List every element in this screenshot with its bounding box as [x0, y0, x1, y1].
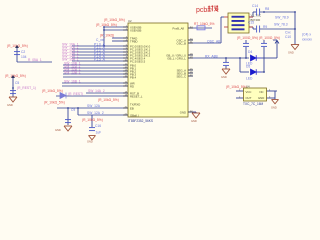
svg-text:RD: RD: [130, 84, 134, 88]
svg-text:P1.5_A: P1.5_A: [94, 57, 106, 61]
svg-text:SW_13B_1: SW_13B_1: [64, 70, 81, 74]
svg-text:(R_10kΩ_5%): (R_10kΩ_5%): [44, 101, 65, 105]
svg-text:GND: GND: [7, 103, 13, 107]
svg-text:104: 104: [21, 55, 27, 59]
svg-text:C16: C16: [95, 124, 101, 128]
svg-text:(R_10kΩ_5%): (R_10kΩ_5%): [82, 118, 103, 122]
svg-text:RX_A8B: RX_A8B: [205, 55, 218, 59]
svg-text:(R_10kΩ_5%): (R_10kΩ_5%): [98, 98, 119, 102]
svg-text:xxxxxx: xxxxxx: [302, 38, 312, 42]
svg-text:pcb: pcb: [196, 7, 207, 14]
svg-text:D5: D5: [246, 65, 250, 69]
svg-text:GB_L / GRU_L: GB_L / GRU_L: [167, 56, 186, 60]
svg-text:(R_10kΩ_5%): (R_10kΩ_5%): [5, 74, 26, 78]
svg-text:(C4) x: (C4) x: [302, 33, 311, 37]
svg-text:R_05A_1: R_05A_1: [28, 58, 42, 62]
svg-text:SW_78.3: SW_78.3: [274, 23, 288, 27]
svg-text:R9: R9: [263, 25, 267, 29]
svg-text:OSC_A8: OSC_A8: [207, 40, 220, 44]
svg-text:(R_10kΩ): (R_10kΩ): [100, 34, 114, 38]
svg-text:C10: C10: [285, 35, 291, 39]
svg-text:R7_10kΩ_5%: R7_10kΩ_5%: [194, 22, 214, 26]
svg-text:TPBD: TPBD: [130, 40, 137, 44]
svg-text:C_xx: C_xx: [96, 38, 104, 42]
svg-text:(R_10kΩ_5%): (R_10kΩ_5%): [96, 23, 117, 27]
svg-text:SW_12A_2: SW_12A_2: [87, 111, 104, 115]
svg-text:C2: C2: [21, 50, 25, 54]
svg-text:SW_78.9: SW_78.9: [275, 16, 289, 20]
svg-text:XSENSB: XSENSB: [130, 29, 141, 33]
svg-text:GND: GND: [258, 96, 264, 100]
svg-text:GND: GND: [271, 106, 277, 110]
svg-text:U2: U2: [128, 19, 132, 23]
svg-text:SEG_C: SEG_C: [177, 74, 186, 78]
svg-text:GND: GND: [288, 51, 294, 55]
svg-text:GND: GND: [221, 75, 227, 79]
svg-text:Cxx: Cxx: [285, 31, 291, 35]
svg-text:LED: LED: [246, 77, 253, 81]
svg-text:RESET_L: RESET_L: [130, 94, 143, 98]
svg-text:OBall_I: OBall_I: [130, 113, 139, 117]
svg-text:SW_16B_1: SW_16B_1: [64, 79, 81, 83]
svg-text:SW_14A_2: SW_14A_2: [88, 89, 105, 93]
svg-text:C9: C9: [71, 108, 75, 112]
svg-text:C5: C5: [15, 81, 19, 85]
svg-text:GND: GND: [191, 119, 197, 123]
svg-text:(R_REST): (R_REST): [68, 92, 83, 96]
svg-text:C15: C15: [248, 21, 254, 25]
svg-text:(R_REST_1): (R_REST_1): [17, 86, 36, 90]
svg-text:GND: GND: [87, 140, 93, 143]
svg-text:R8: R8: [265, 7, 269, 11]
svg-text:GND: GND: [180, 110, 186, 114]
svg-text:EB: EB: [130, 106, 134, 110]
svg-text:(R_100Ω_5%): (R_100Ω_5%): [259, 36, 280, 40]
svg-text:PxxB_A8: PxxB_A8: [172, 26, 184, 30]
svg-text:IT85F2352_56KS: IT85F2352_56KS: [128, 119, 153, 123]
svg-text:SW_12A: SW_12A: [87, 104, 101, 108]
svg-text:VCC: VCC: [246, 90, 252, 94]
svg-text:NC: NC: [260, 90, 264, 94]
svg-text:OUT: OUT: [246, 96, 252, 100]
svg-text:TXC_7C_16M: TXC_7C_16M: [243, 102, 264, 106]
svg-text:1uF: 1uF: [96, 131, 102, 135]
svg-text:PB.4: PB.4: [130, 75, 137, 79]
svg-text:D4: D4: [248, 50, 252, 54]
svg-text:GND: GND: [55, 128, 61, 132]
svg-text:OSC_B: OSC_B: [177, 41, 187, 45]
svg-text:(R_10kΩ_5%): (R_10kΩ_5%): [104, 18, 125, 22]
svg-text:C14: C14: [252, 4, 258, 8]
svg-text:(R_100Ω_5%): (R_100Ω_5%): [237, 36, 258, 40]
